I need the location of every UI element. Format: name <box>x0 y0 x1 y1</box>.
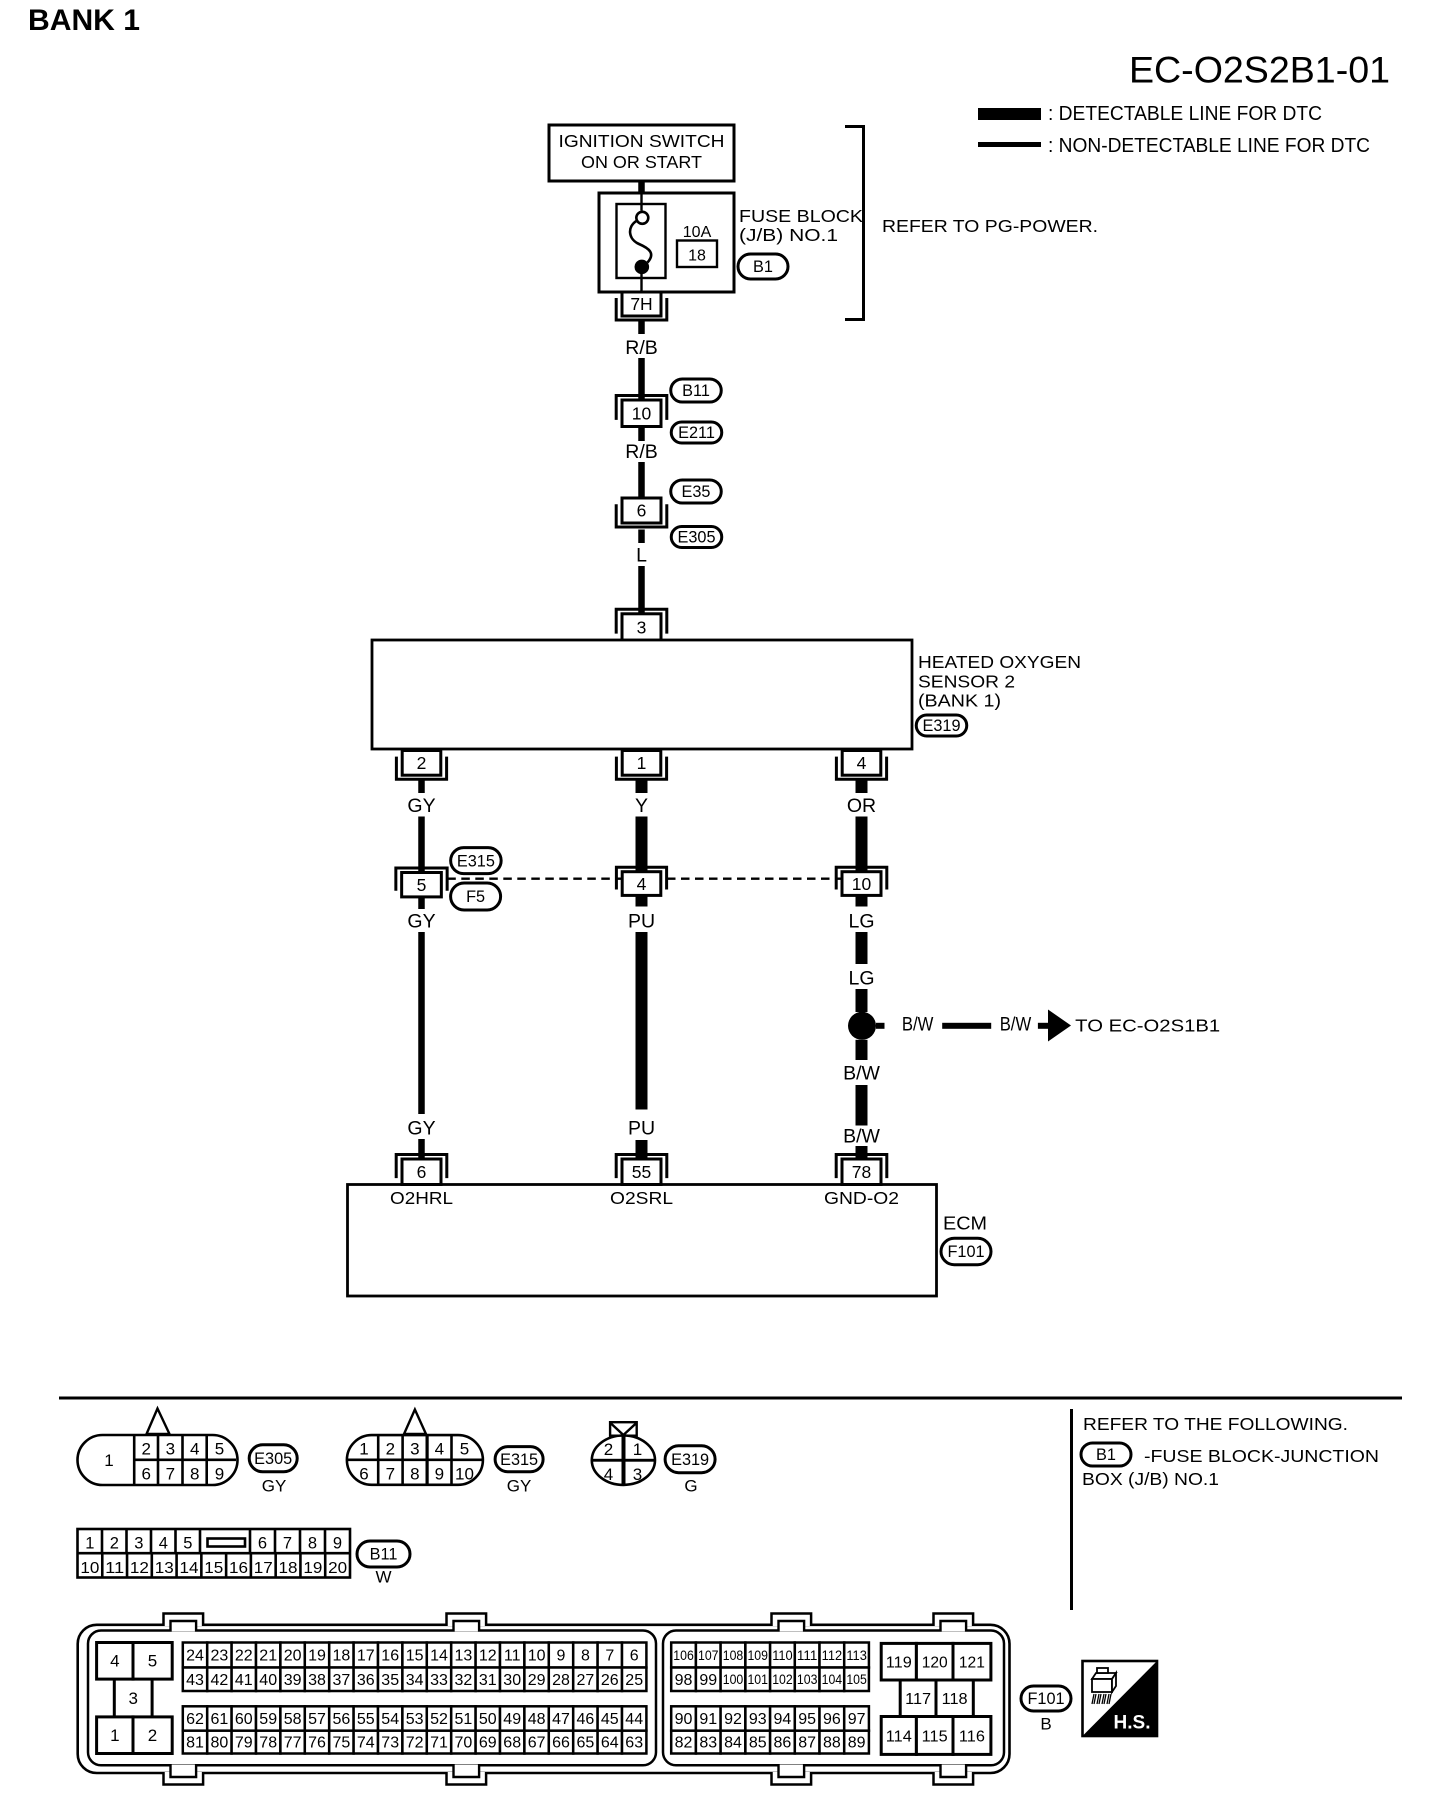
svg-text:FUSE BLOCK: FUSE BLOCK <box>739 206 864 226</box>
vertical divider <box>1070 1409 1073 1610</box>
ECM box <box>348 1185 988 1297</box>
svg-text:: NON-DETECTABLE LINE FOR DTC: : NON-DETECTABLE LINE FOR DTC <box>1048 134 1370 157</box>
svg-text:12: 12 <box>130 1560 149 1577</box>
svg-text:1: 1 <box>633 1440 642 1459</box>
svg-text:24: 24 <box>186 1648 204 1665</box>
svg-text:95: 95 <box>798 1711 816 1728</box>
svg-text:104: 104 <box>822 1671 843 1687</box>
svg-text:Y: Y <box>635 795 648 817</box>
svg-text:73: 73 <box>381 1735 399 1752</box>
connector 6 (ECM O2HRL) <box>396 1155 447 1185</box>
connector 10 (B11 / E211) <box>616 396 667 427</box>
fuse block label <box>739 206 864 245</box>
svg-text:48: 48 <box>528 1711 546 1728</box>
svg-text:77: 77 <box>284 1735 302 1752</box>
svg-text:55: 55 <box>632 1162 651 1182</box>
connector F101 face (ECM) <box>78 1614 1010 1785</box>
svg-text:L: L <box>636 545 647 567</box>
svg-text:31: 31 <box>479 1672 497 1689</box>
svg-text:112: 112 <box>822 1647 843 1663</box>
svg-text:50: 50 <box>479 1711 497 1728</box>
svg-text:53: 53 <box>406 1711 424 1728</box>
junction node B/W <box>848 1012 876 1040</box>
svg-text:7: 7 <box>166 1465 175 1484</box>
svg-text:25: 25 <box>625 1672 643 1689</box>
svg-text:59: 59 <box>259 1711 277 1728</box>
wire R/B (7H to B11) <box>625 322 658 403</box>
svg-text:ECM: ECM <box>943 1214 987 1234</box>
svg-text:E315: E315 <box>457 852 495 870</box>
svg-text:34: 34 <box>406 1672 424 1689</box>
wire B/W branch to EC-O2S1B1 <box>876 1010 1220 1042</box>
connector pin 4 <box>836 751 886 780</box>
svg-text:121: 121 <box>959 1655 985 1672</box>
svg-text:-FUSE BLOCK-JUNCTION: -FUSE BLOCK-JUNCTION <box>1144 1446 1379 1466</box>
svg-text:78: 78 <box>259 1735 277 1752</box>
connector E305 label <box>671 527 722 548</box>
svg-text:H.S.: H.S. <box>1114 1713 1151 1734</box>
svg-text:TO EC-O2S1B1: TO EC-O2S1B1 <box>1075 1016 1220 1036</box>
fuse 10A (slot 18) <box>617 193 718 292</box>
connector 78 (ECM GND-O2) <box>836 1155 887 1185</box>
svg-text:22: 22 <box>235 1648 253 1665</box>
connector E315 face <box>347 1410 483 1485</box>
svg-text:GY: GY <box>507 1477 532 1496</box>
wire PU (F5 pin 4 to ECM) <box>628 895 655 1161</box>
svg-text:88: 88 <box>823 1735 841 1752</box>
svg-text:20: 20 <box>284 1648 302 1665</box>
wire Y (pin 1 to E315 pin 4) <box>635 779 648 874</box>
svg-text:1: 1 <box>104 1451 113 1470</box>
svg-text:10: 10 <box>852 874 872 894</box>
svg-text:PU: PU <box>628 1118 655 1140</box>
svg-text:67: 67 <box>528 1735 546 1752</box>
svg-text:94: 94 <box>774 1711 792 1728</box>
svg-text:F101: F101 <box>947 1243 984 1261</box>
connector B11 label <box>671 379 722 402</box>
svg-text:54: 54 <box>381 1711 399 1728</box>
svg-text:(BANK 1): (BANK 1) <box>918 691 1001 711</box>
wire B/W (junction to ECM pin 78) <box>843 1040 880 1161</box>
connector F5 label <box>451 883 501 910</box>
svg-text:GND-O2: GND-O2 <box>824 1188 899 1208</box>
svg-text:8: 8 <box>581 1648 590 1665</box>
svg-text:114: 114 <box>886 1729 912 1746</box>
svg-text:43: 43 <box>186 1672 204 1689</box>
svg-text:109: 109 <box>747 1647 768 1663</box>
svg-text:E315: E315 <box>500 1451 538 1469</box>
legend non-detectable line for DTC <box>978 134 1370 157</box>
svg-text:1: 1 <box>637 753 647 773</box>
svg-text:57: 57 <box>308 1711 326 1728</box>
connector B11 face <box>78 1529 351 1578</box>
wire L (E305 to sensor pin 3) <box>636 530 647 617</box>
svg-text:15: 15 <box>406 1648 424 1665</box>
svg-text:9: 9 <box>333 1535 342 1553</box>
svg-text:91: 91 <box>699 1711 717 1728</box>
svg-text:12: 12 <box>479 1648 497 1665</box>
connector E319 face <box>592 1422 655 1485</box>
svg-text:EC-O2S2B1-01: EC-O2S2B1-01 <box>1129 49 1390 91</box>
svg-text:PU: PU <box>628 911 655 933</box>
svg-text:6: 6 <box>417 1162 427 1182</box>
svg-text:11: 11 <box>504 1648 521 1665</box>
svg-text:W: W <box>375 1568 391 1587</box>
svg-text:7: 7 <box>283 1535 292 1553</box>
svg-text:3: 3 <box>410 1440 419 1459</box>
svg-text:ON OR START: ON OR START <box>581 152 702 172</box>
svg-text:2: 2 <box>417 753 427 773</box>
svg-text:16: 16 <box>381 1648 399 1665</box>
svg-text:35: 35 <box>381 1672 399 1689</box>
svg-text:32: 32 <box>455 1672 473 1689</box>
svg-text:66: 66 <box>552 1735 570 1752</box>
svg-text:9: 9 <box>215 1465 224 1484</box>
svg-text:B/W: B/W <box>843 1126 880 1148</box>
svg-text:10: 10 <box>80 1560 99 1577</box>
svg-text:116: 116 <box>959 1729 985 1746</box>
svg-text:21: 21 <box>259 1648 277 1665</box>
svg-text:8: 8 <box>308 1535 317 1553</box>
svg-text:79: 79 <box>235 1735 253 1752</box>
svg-text:4: 4 <box>604 1465 613 1484</box>
svg-text:: DETECTABLE LINE FOR DTC: : DETECTABLE LINE FOR DTC <box>1048 102 1322 125</box>
svg-text:5: 5 <box>417 875 427 895</box>
svg-text:100: 100 <box>723 1671 744 1687</box>
connector 3 (sensor harness) <box>616 609 667 640</box>
svg-text:63: 63 <box>625 1735 643 1752</box>
diagram title EC-O2S2B1-01 <box>1129 49 1390 91</box>
svg-text:E35: E35 <box>682 483 711 501</box>
svg-text:113: 113 <box>846 1647 867 1663</box>
fuse block box <box>599 193 734 292</box>
svg-text:OR: OR <box>847 795 876 817</box>
connector 7H <box>616 292 667 320</box>
svg-text:18: 18 <box>279 1560 298 1577</box>
svg-text:3: 3 <box>128 1689 137 1708</box>
svg-text:51: 51 <box>455 1711 473 1728</box>
svg-text:6: 6 <box>359 1465 368 1484</box>
svg-text:37: 37 <box>333 1672 351 1689</box>
svg-text:102: 102 <box>772 1671 793 1687</box>
svg-text:55: 55 <box>357 1711 375 1728</box>
svg-text:46: 46 <box>577 1711 595 1728</box>
svg-text:18: 18 <box>333 1648 351 1665</box>
svg-text:13: 13 <box>155 1560 174 1577</box>
svg-text:27: 27 <box>577 1672 595 1689</box>
svg-text:REFER TO PG-POWER.: REFER TO PG-POWER. <box>882 216 1098 236</box>
connector pin 2 <box>396 751 446 780</box>
svg-text:80: 80 <box>211 1735 229 1752</box>
separator line <box>59 1397 1402 1400</box>
svg-text:106: 106 <box>673 1647 694 1663</box>
svg-text:101: 101 <box>747 1671 768 1687</box>
svg-text:108: 108 <box>723 1647 744 1663</box>
svg-text:49: 49 <box>503 1711 521 1728</box>
svg-text:O2HRL: O2HRL <box>390 1188 453 1208</box>
svg-text:98: 98 <box>675 1672 693 1689</box>
svg-text:BOX (J/B) NO.1: BOX (J/B) NO.1 <box>1082 1469 1219 1489</box>
dashed connector row line <box>447 878 842 880</box>
connector B11 face label <box>357 1541 410 1587</box>
svg-text:5: 5 <box>215 1440 224 1459</box>
svg-text:1: 1 <box>85 1535 94 1553</box>
connector B1 <box>738 254 788 279</box>
svg-text:41: 41 <box>235 1672 253 1689</box>
svg-text:4: 4 <box>435 1440 444 1459</box>
svg-text:61: 61 <box>211 1711 229 1728</box>
svg-text:10: 10 <box>528 1648 546 1665</box>
connector B1 note <box>1081 1443 1379 1489</box>
svg-text:SENSOR 2: SENSOR 2 <box>918 672 1015 692</box>
svg-text:14: 14 <box>179 1560 198 1577</box>
svg-text:40: 40 <box>259 1672 277 1689</box>
svg-text:36: 36 <box>357 1672 375 1689</box>
svg-text:117: 117 <box>905 1691 931 1708</box>
svg-text:47: 47 <box>552 1711 570 1728</box>
svg-text:23: 23 <box>211 1648 229 1665</box>
svg-text:111: 111 <box>797 1647 818 1663</box>
svg-text:2: 2 <box>148 1726 157 1745</box>
svg-text:69: 69 <box>479 1735 497 1752</box>
svg-text:68: 68 <box>503 1735 521 1752</box>
svg-text:F5: F5 <box>466 888 485 906</box>
svg-text:13: 13 <box>455 1648 473 1665</box>
svg-text:70: 70 <box>455 1735 473 1752</box>
svg-text:107: 107 <box>698 1647 719 1663</box>
svg-text:103: 103 <box>797 1671 818 1687</box>
svg-text:110: 110 <box>772 1647 793 1663</box>
svg-text:O2SRL: O2SRL <box>610 1188 673 1208</box>
svg-text:6: 6 <box>258 1535 267 1553</box>
svg-text:GY: GY <box>407 795 435 817</box>
svg-text:4: 4 <box>637 874 647 894</box>
svg-text:2: 2 <box>141 1440 150 1459</box>
wire GY (F5 pin 5 to ECM) <box>407 897 435 1161</box>
svg-text:B/W: B/W <box>902 1014 934 1036</box>
svg-text:65: 65 <box>577 1735 595 1752</box>
svg-text:B1: B1 <box>1096 1446 1116 1464</box>
svg-text:78: 78 <box>852 1162 871 1182</box>
svg-text:BANK 1: BANK 1 <box>28 4 140 37</box>
svg-text:81: 81 <box>186 1735 204 1752</box>
svg-text:B: B <box>1040 1715 1051 1734</box>
svg-text:38: 38 <box>308 1672 326 1689</box>
svg-text:60: 60 <box>235 1711 253 1728</box>
svg-text:90: 90 <box>675 1711 693 1728</box>
svg-text:E319: E319 <box>671 1451 709 1469</box>
svg-text:44: 44 <box>625 1711 643 1728</box>
svg-text:GY: GY <box>407 911 435 933</box>
svg-text:4: 4 <box>190 1440 199 1459</box>
svg-text:1: 1 <box>359 1440 368 1459</box>
svg-text:93: 93 <box>749 1711 767 1728</box>
svg-text:39: 39 <box>284 1672 302 1689</box>
svg-text:GY: GY <box>262 1477 287 1496</box>
svg-text:2: 2 <box>604 1440 613 1459</box>
legend detectable line for DTC <box>978 102 1322 125</box>
svg-text:3: 3 <box>637 617 647 637</box>
wire R/B (E211 to E35) <box>625 427 658 499</box>
svg-text:74: 74 <box>357 1735 375 1752</box>
connector 4 (E315 / F5) <box>616 867 666 895</box>
svg-text:96: 96 <box>823 1711 841 1728</box>
svg-text:3: 3 <box>166 1440 175 1459</box>
svg-text:5: 5 <box>460 1440 469 1459</box>
svg-text:6: 6 <box>637 501 647 521</box>
svg-text:16: 16 <box>229 1560 248 1577</box>
svg-text:29: 29 <box>528 1672 546 1689</box>
refer to the following note <box>1083 1414 1348 1434</box>
svg-text:(J/B) NO.1: (J/B) NO.1 <box>739 225 838 245</box>
svg-text:3: 3 <box>633 1465 642 1484</box>
svg-text:120: 120 <box>922 1655 948 1672</box>
svg-text:76: 76 <box>308 1735 326 1752</box>
svg-text:9: 9 <box>435 1465 444 1484</box>
wire OR (pin 4 to E315 pin 10) <box>847 779 876 874</box>
svg-text:7: 7 <box>605 1648 614 1665</box>
svg-text:B/W: B/W <box>843 1063 880 1085</box>
svg-text:17: 17 <box>254 1560 273 1577</box>
svg-text:LG: LG <box>848 911 874 933</box>
svg-text:42: 42 <box>211 1672 229 1689</box>
connector 6 (E35 / E305) <box>616 498 667 527</box>
svg-text:B11: B11 <box>370 1546 398 1564</box>
connector 5 (E315 / F5) <box>396 868 447 897</box>
svg-text:B1: B1 <box>753 258 773 276</box>
svg-text:7H: 7H <box>630 294 652 314</box>
svg-text:87: 87 <box>798 1735 816 1752</box>
svg-text:19: 19 <box>303 1560 322 1577</box>
svg-text:71: 71 <box>430 1735 448 1752</box>
svg-text:7: 7 <box>386 1465 395 1484</box>
svg-text:118: 118 <box>942 1691 968 1708</box>
svg-text:30: 30 <box>503 1672 521 1689</box>
svg-text:E319: E319 <box>922 717 960 735</box>
svg-text:11: 11 <box>105 1560 124 1577</box>
svg-text:72: 72 <box>406 1735 424 1752</box>
svg-text:10: 10 <box>632 403 652 423</box>
svg-text:E305: E305 <box>677 529 715 547</box>
svg-text:5: 5 <box>183 1535 192 1553</box>
svg-text:45: 45 <box>601 1711 619 1728</box>
svg-text:IGNITION SWITCH: IGNITION SWITCH <box>559 131 725 151</box>
ignition switch box <box>549 125 734 181</box>
connector E319 face label <box>665 1446 715 1496</box>
title BANK 1 <box>28 4 140 37</box>
svg-text:58: 58 <box>284 1711 302 1728</box>
svg-text:1: 1 <box>110 1726 119 1745</box>
svg-text:R/B: R/B <box>625 441 658 463</box>
svg-text:19: 19 <box>308 1648 326 1665</box>
svg-text:18: 18 <box>688 248 706 265</box>
svg-text:E305: E305 <box>254 1450 292 1468</box>
svg-text:8: 8 <box>190 1465 199 1484</box>
svg-text:85: 85 <box>749 1735 767 1752</box>
svg-text:9: 9 <box>557 1648 566 1665</box>
connector E305 face <box>78 1409 238 1486</box>
svg-text:2: 2 <box>110 1535 119 1553</box>
connector E211 label <box>671 422 722 443</box>
svg-text:10: 10 <box>455 1465 474 1484</box>
svg-text:4: 4 <box>159 1535 168 1553</box>
svg-text:86: 86 <box>774 1735 792 1752</box>
connector E319 label <box>916 715 967 736</box>
svg-text:4: 4 <box>857 753 867 773</box>
connector E315 face label <box>495 1447 543 1496</box>
wire ignition switch to fuse block <box>638 181 645 193</box>
wire LG (F5 pin 10 to junction) <box>848 895 874 1012</box>
svg-text:105: 105 <box>846 1671 867 1687</box>
svg-text:GY: GY <box>407 1118 435 1140</box>
svg-text:10A: 10A <box>683 224 712 241</box>
bracket refer to PG-POWER <box>845 127 1098 320</box>
svg-text:5: 5 <box>148 1652 157 1671</box>
connector 10 (E315 / F5) <box>836 867 887 895</box>
svg-text:E211: E211 <box>678 424 715 442</box>
svg-text:26: 26 <box>601 1672 619 1689</box>
svg-text:84: 84 <box>724 1735 742 1752</box>
wire GY (pin 2 to E315 pin 5) <box>407 779 435 874</box>
svg-text:G: G <box>684 1477 697 1496</box>
svg-text:92: 92 <box>724 1711 742 1728</box>
svg-text:75: 75 <box>333 1735 351 1752</box>
svg-text:14: 14 <box>430 1648 448 1665</box>
svg-text:B/W: B/W <box>1000 1014 1032 1036</box>
connector F101 label <box>941 1238 991 1265</box>
svg-text:R/B: R/B <box>625 337 658 359</box>
svg-text:REFER TO THE FOLLOWING.: REFER TO THE FOLLOWING. <box>1083 1414 1348 1434</box>
svg-text:2: 2 <box>386 1440 395 1459</box>
svg-text:64: 64 <box>601 1735 619 1752</box>
connector E305 face label <box>249 1445 297 1496</box>
svg-text:20: 20 <box>328 1560 347 1577</box>
svg-text:4: 4 <box>110 1652 119 1671</box>
svg-text:83: 83 <box>699 1735 717 1752</box>
svg-text:17: 17 <box>357 1648 375 1665</box>
connector F101 face label <box>1021 1686 1071 1734</box>
connector pin 1 <box>616 751 666 780</box>
svg-text:33: 33 <box>430 1672 448 1689</box>
svg-text:97: 97 <box>848 1711 866 1728</box>
svg-text:LG: LG <box>848 968 874 990</box>
connector E315 label <box>451 848 502 874</box>
svg-text:62: 62 <box>186 1711 204 1728</box>
svg-text:6: 6 <box>141 1465 150 1484</box>
svg-text:3: 3 <box>134 1535 143 1553</box>
svg-text:99: 99 <box>699 1672 717 1689</box>
svg-text:115: 115 <box>922 1729 948 1746</box>
svg-text:82: 82 <box>675 1735 693 1752</box>
svg-text:6: 6 <box>630 1648 639 1665</box>
svg-text:F101: F101 <box>1027 1690 1064 1708</box>
svg-text:89: 89 <box>848 1735 866 1752</box>
svg-text:15: 15 <box>204 1560 223 1577</box>
svg-text:52: 52 <box>430 1711 448 1728</box>
H.S. view mark <box>1083 1661 1158 1736</box>
svg-text:8: 8 <box>410 1465 419 1484</box>
svg-text:HEATED OXYGEN: HEATED OXYGEN <box>918 652 1081 672</box>
connector E35 label <box>671 480 722 503</box>
svg-text:28: 28 <box>552 1672 570 1689</box>
heated oxygen sensor 2 box <box>372 640 1081 749</box>
svg-text:119: 119 <box>886 1655 912 1672</box>
svg-text:56: 56 <box>333 1711 351 1728</box>
connector 55 (ECM O2SRL) <box>616 1155 667 1185</box>
svg-text:B11: B11 <box>682 382 710 400</box>
